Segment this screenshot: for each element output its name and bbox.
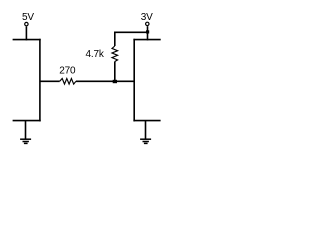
wire pullup to 3V [114, 31, 148, 33]
wire 5V lead [25, 26, 27, 40]
wire ground stub left [25, 121, 27, 140]
wire 270 to node [76, 80, 134, 82]
svg-text:270: 270 [59, 65, 76, 76]
wire ground stub right [145, 121, 147, 140]
ground [20, 139, 31, 143]
right device top pin wire [133, 39, 160, 41]
resistor 4.7k [112, 46, 118, 62]
left device top pin wire [13, 39, 41, 41]
left device bottom pin wire [13, 120, 41, 122]
power terminal 5V [25, 22, 28, 25]
right device left side wire [133, 39, 135, 122]
left device right side wire [39, 39, 41, 122]
power terminal 3V [146, 22, 149, 25]
wire output left [40, 80, 60, 82]
svg-text:5V: 5V [22, 12, 34, 23]
svg-text:4.7k: 4.7k [86, 49, 105, 60]
junction node 3V [146, 30, 149, 33]
resistor 270 [60, 79, 76, 85]
ground [140, 139, 151, 143]
junction node output [113, 80, 117, 83]
wire 3V lead [147, 26, 149, 40]
right device bottom pin wire [133, 120, 160, 122]
svg-text:3V: 3V [141, 12, 153, 23]
wire 4.7k top lead [114, 32, 116, 47]
wire 4.7k bottom lead [114, 62, 116, 82]
